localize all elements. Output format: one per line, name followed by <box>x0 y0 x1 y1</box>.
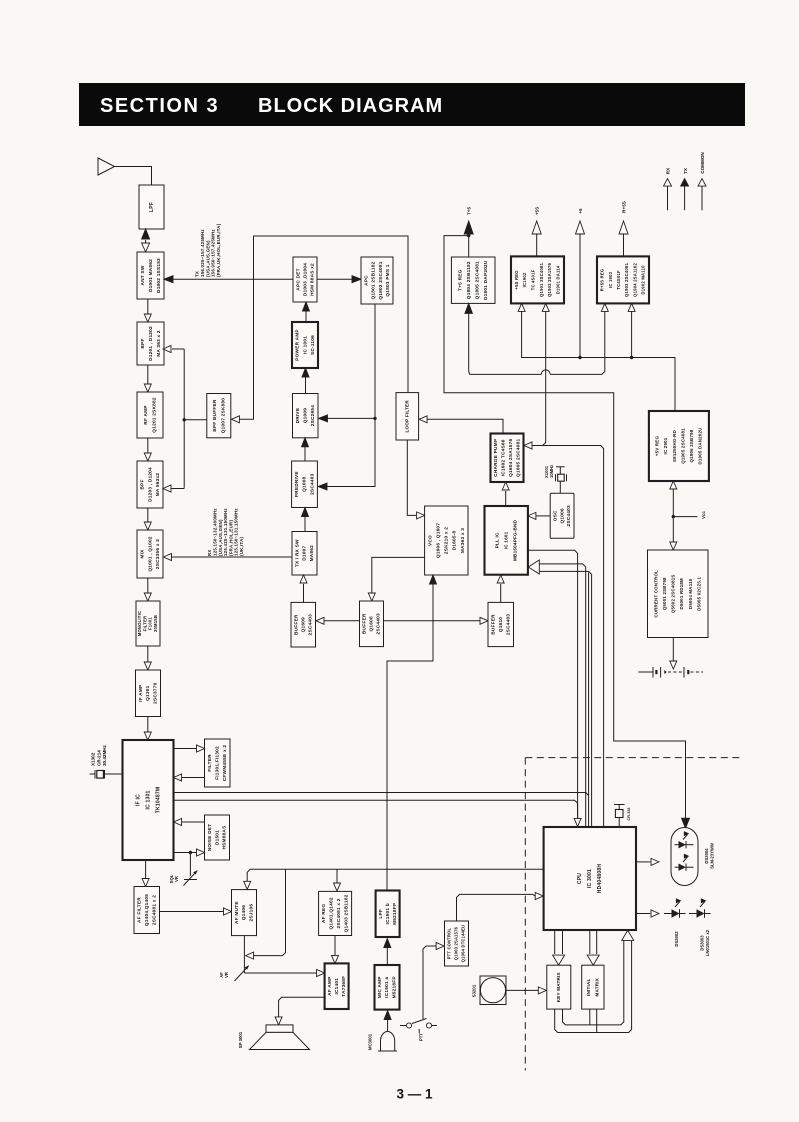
wire DRIVE-POWERAMP <box>302 368 309 394</box>
svg-text:+5V REG: +5V REG <box>655 436 660 457</box>
legend TX arrow <box>681 179 689 211</box>
svg-text:Q1001 , Q1002: Q1001 , Q1002 <box>147 536 153 571</box>
svg-text:IF IC: IF IC <box>135 794 141 806</box>
svg-text:156.050~157.425MHz: 156.050~157.425MHz <box>211 229 216 277</box>
svg-text:(UK,ITA): (UK,ITA) <box>239 536 244 556</box>
svg-text:D1203 , D1204: D1203 , D1204 <box>147 467 153 502</box>
svg-text:2SC3770: 2SC3770 <box>153 682 159 703</box>
svg-text:CHARGE PUMP: CHARGE PUMP <box>493 439 499 477</box>
wire RFAMP-BPF2 <box>144 438 151 461</box>
svg-text:Q1605 2SC4081: Q1605 2SC4081 <box>515 439 521 477</box>
wire BUF1610-PLL <box>497 575 504 602</box>
svg-text:D5005 02CZ5.1: D5005 02CZ5.1 <box>696 577 701 611</box>
box BPF2 <box>137 461 163 508</box>
svg-text:IC1501 b: IC1501 b <box>385 903 391 924</box>
crystal X1001 <box>556 467 567 493</box>
svg-text:COMMON: COMMON <box>700 152 705 174</box>
wire BPF-RFAMP <box>144 365 151 392</box>
box ANT SW <box>137 252 164 299</box>
wire AFFILTER-AFMUTE <box>160 908 232 915</box>
label CR-333 <box>627 807 631 820</box>
svg-text:Q1609: Q1609 <box>300 617 306 632</box>
svg-text:PREDRIVE: PREDRIVE <box>294 471 300 497</box>
microphone MC3001 <box>378 1011 397 1052</box>
box KEY MATRIX <box>547 965 571 1009</box>
svg-text:RX: RX <box>207 549 212 556</box>
box BUFFER Q1610 <box>488 602 514 646</box>
box APC <box>361 257 393 304</box>
box TX/RX SW <box>292 532 317 576</box>
wire AFREG-AFAMP <box>332 936 339 964</box>
svg-text:Q1906 2SB798: Q1906 2SB798 <box>689 429 694 462</box>
svg-text:FILTER: FILTER <box>207 754 213 772</box>
wire IFIC-NOISEDET <box>174 849 205 856</box>
T+5 arrow out <box>464 221 473 257</box>
label PTT <box>419 1033 424 1041</box>
svg-text:D1002 1SS153: D1002 1SS153 <box>156 258 162 293</box>
box +5S REG <box>511 256 564 303</box>
svg-text:IC 1301: IC 1301 <box>145 790 151 809</box>
wire AFAMP to speaker <box>275 997 325 1025</box>
wire BUF1608-BUF1610 <box>384 617 489 624</box>
crystal X1302 <box>90 770 123 779</box>
svg-text:APC: APC <box>363 275 369 286</box>
svg-text:BPF: BPF <box>140 338 146 348</box>
label COMMON <box>700 152 705 174</box>
wire rail to AF section from CPU <box>244 869 544 959</box>
svg-text:CR-333: CR-333 <box>627 807 631 820</box>
wire LPF-ANTSW bidirectional <box>142 229 150 252</box>
label RX frequencies <box>207 508 244 556</box>
box MIC AMP <box>375 965 400 1010</box>
wire IFIC-AFFILTER <box>142 860 149 887</box>
svg-text:M5218FP: M5218FP <box>392 903 398 925</box>
svg-text:F1001: F1001 <box>148 617 153 630</box>
svg-text:IC1602 TC4S66: IC1602 TC4S66 <box>500 439 506 476</box>
svg-text:LOOP FILTER: LOOP FILTER <box>405 400 410 433</box>
svg-text:SLM-23YWW: SLM-23YWW <box>710 843 715 869</box>
label TX <box>683 167 688 174</box>
svg-text:+5S: +5S <box>535 207 540 215</box>
wire loopfilter top loop to BPF BUFFER <box>231 236 408 423</box>
svg-text:Q1007 2SK880: Q1007 2SK880 <box>220 398 226 434</box>
svg-text:125.150~131.150MHz: 125.150~131.150MHz <box>234 508 239 556</box>
box CHARGE PUMP <box>491 434 524 483</box>
svg-text:DS3004: DS3004 <box>704 848 709 864</box>
svg-text:D1801 DAP202U: D1801 DAP202U <box>483 260 489 300</box>
wire PREDRIVE-DRIVE <box>302 438 309 461</box>
svg-text:T+5 REG: T+5 REG <box>458 269 464 291</box>
box CURRENT CONTROL <box>648 550 709 638</box>
label S3201 <box>472 984 477 997</box>
svg-text:LPF: LPF <box>149 202 155 212</box>
box R+5S REG <box>597 256 649 303</box>
box FILTER FI1301 <box>205 739 231 787</box>
svg-text:(FRA,UK,HOL,EUR,ITA): (FRA,UK,HOL,EUR,ITA) <box>216 223 221 277</box>
svg-text:VCO: VCO <box>427 535 433 546</box>
svg-text:DS3003: DS3003 <box>700 935 705 951</box>
svg-text:BUFFER: BUFFER <box>293 614 299 635</box>
wire APCDET-APC <box>317 276 361 283</box>
wire S3201-KEYMATRIX <box>506 987 546 994</box>
svg-text:HSM 88AS x2: HSM 88AS x2 <box>309 263 315 296</box>
svg-text:BPF BUFFER: BPF BUFFER <box>212 399 218 432</box>
svg-text:D1902 MA110: D1902 MA110 <box>641 265 646 295</box>
svg-text:R+5S: R+5S <box>622 201 627 213</box>
box INITIAL MATRIX <box>582 965 604 1009</box>
LED display DS3004 <box>671 828 698 886</box>
crystal X3001 CR-333 <box>614 805 625 828</box>
wire POWERAMP-APCDET <box>303 302 310 322</box>
svg-text:Q1803 PMS 1: Q1803 PMS 1 <box>385 264 391 296</box>
box BUFFER Q1609 <box>291 602 316 647</box>
wire CPU to LEDs arrow <box>636 910 659 917</box>
svg-text:2SC4403: 2SC4403 <box>376 613 382 634</box>
box VCO <box>425 506 468 575</box>
wire IFAMP-IFIC <box>144 717 151 741</box>
wire PTTCONTROL to CPU <box>457 893 544 922</box>
svg-text:VR: VR <box>174 876 179 882</box>
box PLL IC <box>485 506 528 575</box>
svg-text:MIX: MIX <box>140 549 146 559</box>
label +5 <box>578 208 583 214</box>
PTT switch <box>400 1019 437 1034</box>
svg-text:Q1401,Q1402: Q1401,Q1402 <box>329 897 335 929</box>
wire MONO-IFAMP <box>144 646 151 670</box>
svg-text:Q1606 , Q1607: Q1606 , Q1607 <box>435 523 441 558</box>
wire AFVR to AFAMP <box>244 970 324 977</box>
svg-text:MATRIX: MATRIX <box>594 977 599 996</box>
svg-text:APC DET: APC DET <box>295 268 301 290</box>
potentiometer SQL VR <box>184 853 198 886</box>
potentiometer AF VR <box>235 965 250 981</box>
svg-text:KEY MATRIX: KEY MATRIX <box>556 971 561 1002</box>
svg-text:TX / RX SW: TX / RX SW <box>294 539 300 567</box>
svg-text:AF AMP: AF AMP <box>327 977 333 996</box>
svg-text:2SC4403: 2SC4403 <box>309 473 315 494</box>
svg-text:HSM88AS: HSM88AS <box>222 826 228 850</box>
svg-text:2SC3356 x 2: 2SC3356 x 2 <box>155 539 161 569</box>
svg-text:RX: RX <box>666 167 671 174</box>
svg-text:BPF: BPF <box>140 479 146 489</box>
box APC DET <box>293 257 317 302</box>
svg-text:MB1504PFG-BND: MB1504PFG-BND <box>512 519 517 561</box>
svg-text:CPU: CPU <box>577 873 583 884</box>
svg-text:IF AMP: IF AMP <box>138 685 144 702</box>
svg-text:BUFFER: BUFFER <box>490 614 496 635</box>
rotary switch S3201 <box>480 976 506 1005</box>
svg-text:(USA,AUS,GEN): (USA,AUS,GEN) <box>205 240 210 277</box>
svg-text:TC 4S01F: TC 4S01F <box>530 269 535 290</box>
box MONOLITHIC FILTER <box>136 601 160 646</box>
svg-text:30.42MHz: 30.42MHz <box>102 744 107 766</box>
wire +5S to charge pump <box>524 303 604 827</box>
box LPF <box>139 185 164 229</box>
svg-text:TX: TX <box>683 167 688 174</box>
svg-text:CFWM455E x 2: CFWM455E x 2 <box>222 745 228 782</box>
svg-text:TC4S01F: TC4S01F <box>616 270 621 290</box>
box AF AMP <box>325 963 349 1009</box>
svg-text:PTT: PTT <box>419 1033 424 1041</box>
wire BUF1609-TXRXSW <box>300 575 307 602</box>
svg-text:DS3002: DS3002 <box>674 931 679 947</box>
box NOISE DET <box>205 815 230 860</box>
svg-text:BUFFER: BUFFER <box>362 613 368 634</box>
wire NOISEDET-IFIC <box>174 819 205 826</box>
svg-text:Q1201 2SK882: Q1201 2SK882 <box>151 397 157 433</box>
label AF VR <box>219 972 229 978</box>
label X1302 CR-214 30.42MHz <box>91 744 107 766</box>
svg-text:Q1404,Q1405: Q1404,Q1405 <box>144 894 150 926</box>
svg-text:D1901 DA114: D1901 DA114 <box>555 265 560 294</box>
box BUFFER Q1608 <box>360 601 384 647</box>
wire CPU to PLL bus <box>528 560 591 827</box>
label SQL VR <box>169 874 179 883</box>
svg-text:Q1604 2SA1576: Q1604 2SA1576 <box>508 439 514 477</box>
box POWER AMP <box>292 322 318 368</box>
page number 3-1 <box>397 1087 434 1102</box>
box LPF IC1501b <box>376 891 400 938</box>
label R+5S <box>622 201 627 213</box>
svg-text:125.425~131.150MHz: 125.425~131.150MHz <box>223 508 228 556</box>
svg-text:CURRENT CONTROL: CURRENT CONTROL <box>653 570 658 618</box>
svg-text:2SC2954: 2SC2954 <box>310 405 316 426</box>
svg-text:2SC4081 x 2: 2SC4081 x 2 <box>336 898 342 928</box>
title bar SECTION 3 BLOCK DIAGRAM <box>79 83 745 126</box>
svg-text:Q1802 2SC4081: Q1802 2SC4081 <box>378 261 384 299</box>
wire Vcc node <box>670 481 698 550</box>
svg-text:MONOLITIC: MONOLITIC <box>137 611 142 636</box>
svg-text:AF REG: AF REG <box>321 904 327 923</box>
battery symbol <box>638 667 703 678</box>
svg-text:Q1406: Q1406 <box>241 905 247 920</box>
svg-text:Q1009: Q1009 <box>302 408 308 423</box>
svg-text:T+5: T+5 <box>467 207 472 215</box>
wire IFIC upper line to CPU <box>174 572 589 827</box>
svg-text:D1003 ,D1004: D1003 ,D1004 <box>302 263 308 296</box>
wire APC DET line to ANT SW <box>164 276 295 283</box>
svg-text:BLOCK DIAGRAM: BLOCK DIAGRAM <box>258 95 443 117</box>
label DS3002 <box>674 931 679 947</box>
wire BPFBUF output to BPF1 and BPF2 <box>163 346 207 493</box>
wire +5 power rail <box>518 303 675 411</box>
svg-text:M5218FP: M5218FP <box>392 976 398 998</box>
svg-text:Q1008: Q1008 <box>302 476 308 491</box>
svg-text:IC 1903: IC 1903 <box>608 271 613 288</box>
svg-text:Q1006: Q1006 <box>559 508 565 523</box>
svg-text:Q1610: Q1610 <box>498 617 504 632</box>
svg-text:IC 2901: IC 2901 <box>663 437 668 454</box>
wire chargepump-loopfilter <box>419 416 503 434</box>
svg-text:IC1902: IC1902 <box>522 272 527 287</box>
wire modline to VCO bottom <box>387 575 437 891</box>
box LOOP FILTER <box>396 393 419 440</box>
box MIX <box>137 530 163 578</box>
svg-text:R+5S REG: R+5S REG <box>600 269 605 292</box>
svg-text:MIC AMP: MIC AMP <box>377 976 383 998</box>
svg-text:IC 1601: IC 1601 <box>503 531 508 549</box>
wire MIX-MONO <box>144 578 151 601</box>
svg-text:IC1501 a: IC1501 a <box>384 977 390 998</box>
LED DS3002 <box>664 899 686 918</box>
svg-text:SC-1106: SC-1106 <box>310 335 316 355</box>
wire AFMUTE to AF VR <box>243 936 245 974</box>
svg-text:Q1805 2SC4081: Q1805 2SC4081 <box>475 261 481 299</box>
svg-text:LPF: LPF <box>378 909 384 919</box>
svg-text:MA 563x2: MA 563x2 <box>155 473 161 497</box>
svg-text:MC3001: MC3001 <box>368 1033 373 1050</box>
box AF MUTE <box>232 890 257 936</box>
svg-text:FI1301,FI1302: FI1301,FI1302 <box>214 746 220 780</box>
svg-text:2SC4403: 2SC4403 <box>566 505 572 526</box>
wire CPU to display arrow <box>636 858 659 865</box>
legend RX arrow <box>664 179 672 211</box>
svg-text:DRIVE: DRIVE <box>295 408 301 424</box>
svg-text:POWER AMP: POWER AMP <box>295 329 301 361</box>
bus CPU to INITIAL MATRIX <box>587 930 599 965</box>
wire loopfilter-VCO <box>407 440 424 519</box>
svg-text:D1001 MA862: D1001 MA862 <box>148 259 154 292</box>
box AF FILTER <box>134 887 160 934</box>
speaker SP3001 <box>250 1025 310 1050</box>
box PREDRIVE <box>292 461 318 508</box>
wire VCO-BUF1608 <box>368 557 424 601</box>
svg-text:125.150~132.400MHz: 125.150~132.400MHz <box>212 508 217 556</box>
LED DS3003 <box>689 899 711 918</box>
svg-text:D5004 MA110: D5004 MA110 <box>688 578 693 609</box>
svg-text:Q1804 2SB1182: Q1804 2SB1182 <box>466 261 472 299</box>
wire IFIC-FILTER <box>174 745 205 752</box>
svg-text:Q1003 2SA1576: Q1003 2SA1576 <box>454 926 459 960</box>
svg-text:Q1904 2SA1162: Q1904 2SA1162 <box>632 263 637 297</box>
wire IFIC lower line to CPU arrow <box>174 800 578 818</box>
wire TXRXSW-PREDRIVE <box>302 508 309 532</box>
bus CPU to KEY MATRIX <box>553 930 565 965</box>
box RF AMP <box>137 392 163 438</box>
bus matrices return to CPU <box>555 930 634 1032</box>
svg-text:D5001 RD18M: D5001 RD18M <box>679 578 684 610</box>
dashed boundary <box>525 758 740 1071</box>
wire PLL data to CPU <box>528 550 581 826</box>
svg-text:+5: +5 <box>578 208 583 214</box>
svg-text:D1605-8: D1605-8 <box>452 530 458 550</box>
wire RX line MIX-TXRXSW <box>164 554 293 561</box>
svg-text:AF MUTE: AF MUTE <box>234 901 240 924</box>
svg-text:TK10487M: TK10487M <box>155 787 161 814</box>
svg-text:Q1903 2SC4081: Q1903 2SC4081 <box>624 262 629 297</box>
wire PTT to PTT CONTROL <box>423 943 444 1020</box>
wire currentcontrol to battery <box>670 638 677 670</box>
wire FILTER-IFIC <box>174 774 205 781</box>
svg-text:X1302: X1302 <box>91 752 96 766</box>
svg-text:Q1901 2SC4081: Q1901 2SC4081 <box>539 262 544 297</box>
label TX frequencies <box>195 223 221 277</box>
svg-text:Q5001 2SB798: Q5001 2SB798 <box>662 577 667 610</box>
legend COMMON arrow <box>698 179 706 211</box>
svg-text:CR-214: CR-214 <box>96 750 101 766</box>
svg-text:NOISE DET: NOISE DET <box>207 824 213 852</box>
label SP 3001 <box>238 1031 243 1048</box>
svg-text:10MHz: 10MHz <box>549 465 554 478</box>
svg-text:IC1401: IC1401 <box>334 978 340 995</box>
svg-text:2SC4081 x 2: 2SC4081 x 2 <box>151 895 157 925</box>
box IF AMP <box>136 670 161 717</box>
wire T+5REG bottom control from R+5SREG <box>465 303 608 374</box>
wire BPF2-MIX <box>144 508 151 530</box>
box DRIVE <box>293 394 319 438</box>
svg-text:SECTION 3: SECTION 3 <box>100 95 219 117</box>
wire MICAMP-LPF <box>384 939 391 966</box>
label +5S <box>535 207 540 215</box>
svg-text:156.025~157.425MHz: 156.025~157.425MHz <box>200 229 205 277</box>
svg-text:2SC4403: 2SC4403 <box>308 614 314 635</box>
svg-text:Q1608: Q1608 <box>369 616 375 631</box>
antenna <box>98 158 152 185</box>
label MC3001 <box>368 1033 373 1050</box>
svg-text:3 — 1: 3 — 1 <box>397 1087 434 1102</box>
box CPU <box>544 827 636 930</box>
svg-text:ANT SW: ANT SW <box>140 265 146 285</box>
svg-text:Q1301: Q1301 <box>145 685 151 700</box>
svg-text:D1007: D1007 <box>302 546 308 561</box>
label T+5 <box>467 207 472 215</box>
svg-text:Vcc: Vcc <box>701 511 706 519</box>
svg-text:MA862: MA862 <box>309 545 315 562</box>
box BPF1 <box>137 322 164 365</box>
svg-text:IC 3001: IC 3001 <box>587 869 593 888</box>
label DS3003 LN01501C x2 <box>700 929 710 956</box>
box OSC <box>550 493 574 538</box>
svg-text:S3201: S3201 <box>472 984 477 997</box>
svg-text:D1905 DAN202U: D1905 DAN202U <box>698 427 703 464</box>
svg-text:PLL IC: PLL IC <box>494 532 499 548</box>
svg-text:INITIAL: INITIAL <box>586 978 591 996</box>
svg-text:PTT CONTROL: PTT CONTROL <box>447 927 452 959</box>
label X1001 10MHz <box>544 465 554 478</box>
svg-text:HD404808H: HD404808H <box>597 864 603 894</box>
svg-text:Q5002 2SC4081S: Q5002 2SC4081S <box>671 574 676 613</box>
svg-text:OSC: OSC <box>552 510 558 521</box>
svg-text:Q1902 2SA1576: Q1902 2SA1576 <box>547 262 552 297</box>
wire PLL-CHARGEPUMP <box>502 482 509 506</box>
svg-text:Q1801 2SB1182: Q1801 2SB1182 <box>371 261 377 299</box>
svg-text:2SC4403: 2SC4403 <box>505 614 511 635</box>
svg-text:IC 1001: IC 1001 <box>302 336 308 354</box>
box T+5 REG <box>451 257 495 303</box>
R+5S arrow out <box>619 221 628 256</box>
+5S arrow out <box>532 221 541 256</box>
box PTT CONTROL <box>445 921 469 966</box>
wire BUF1608-BUF1609 <box>316 617 360 624</box>
svg-text:LN01501C x2: LN01501C x2 <box>705 929 710 956</box>
wire OSC-PLL <box>528 512 550 519</box>
svg-text:TA7368F: TA7368F <box>341 976 347 997</box>
wire ANTSW-BPF <box>144 299 151 322</box>
box AF REG <box>319 891 352 935</box>
+5 arrow out <box>576 221 585 358</box>
box BPF BUFFER <box>207 394 231 438</box>
svg-text:+5S REG: +5S REG <box>514 270 519 289</box>
svg-text:AF FILTER: AF FILTER <box>136 897 142 923</box>
svg-text:RF AMP: RF AMP <box>143 405 149 424</box>
svg-text:Q1905 2SC4081: Q1905 2SC4081 <box>680 428 685 464</box>
svg-text:S81250HG-RD: S81250HG-RD <box>672 430 677 462</box>
svg-text:Q1403 2SB1182: Q1403 2SB1182 <box>344 894 350 932</box>
svg-text:TX: TX <box>195 271 200 277</box>
svg-text:Q1004 DTC144EU: Q1004 DTC144EU <box>461 925 466 962</box>
box IF IC <box>123 740 174 860</box>
svg-text:D1501: D1501 <box>214 830 220 845</box>
